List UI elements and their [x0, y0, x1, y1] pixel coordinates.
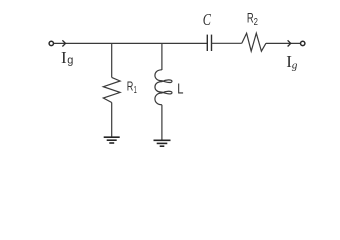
ground (under L): [154, 140, 171, 146]
svg-text:L: L: [177, 81, 183, 98]
svg-text:g: g: [67, 54, 73, 66]
inductor L: [155, 70, 172, 105]
output current arrow: [288, 40, 291, 46]
wire: [54, 42, 207, 44]
capacitor C: [207, 35, 211, 51]
svg-text:I: I: [61, 48, 67, 67]
input terminal: [49, 41, 53, 45]
wire R2 to output: [266, 42, 301, 44]
label Ig (output): [286, 52, 298, 72]
label R2: [247, 10, 258, 28]
svg-text:g: g: [292, 60, 298, 72]
svg-text:2: 2: [254, 16, 258, 28]
wire L branch top: [161, 43, 163, 70]
resistor R2: [242, 33, 266, 51]
wire R1 branch top: [111, 43, 113, 77]
wire L to ground: [161, 105, 163, 141]
output terminal: [301, 41, 305, 45]
wire R1 to ground: [111, 103, 113, 138]
svg-text:C: C: [203, 10, 212, 29]
input current arrow: [62, 40, 65, 46]
resistor R1: [103, 77, 120, 102]
wire cap to R2: [212, 42, 242, 44]
label R1: [127, 79, 137, 97]
ground (under R1): [104, 137, 120, 143]
label Ig (input): [61, 48, 73, 67]
svg-text:1: 1: [134, 85, 137, 96]
svg-text:R: R: [127, 79, 134, 94]
